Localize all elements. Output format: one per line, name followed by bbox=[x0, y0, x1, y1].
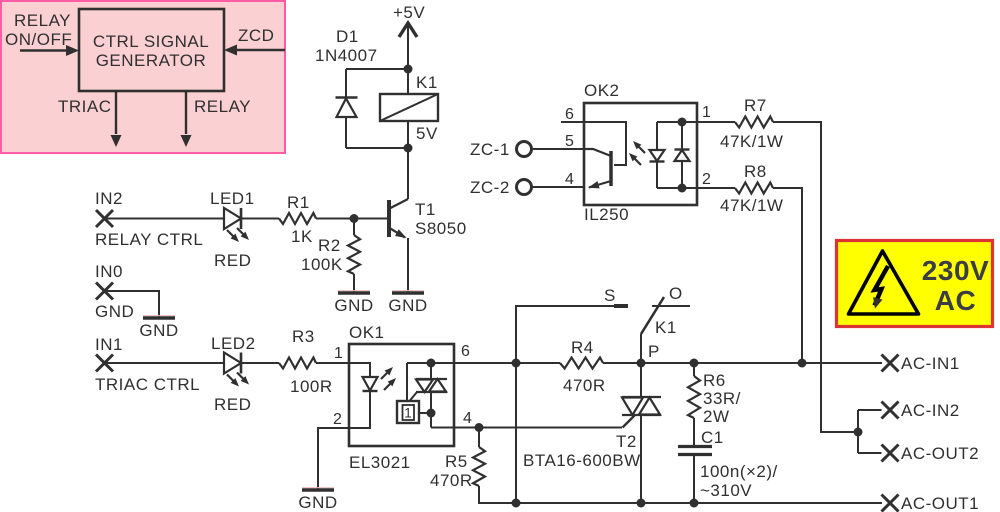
LED LED1 colour label bbox=[214, 251, 251, 270]
switch O label bbox=[669, 284, 683, 303]
svg-text:47K/1W: 47K/1W bbox=[720, 196, 783, 215]
svg-text:TRIAC CTRL: TRIAC CTRL bbox=[95, 375, 200, 394]
warning lightning bolt bbox=[873, 266, 888, 309]
node AC-IN1 terminal bbox=[882, 355, 899, 372]
node OK1 triac top bbox=[427, 359, 436, 368]
svg-text:OK1: OK1 bbox=[349, 323, 385, 342]
triac T2 label bbox=[616, 432, 637, 451]
ZCD input arrow bbox=[224, 45, 285, 56]
wire IN2 to LED1 bbox=[104, 218, 224, 220]
wire R7 to AC-IN2 branch bbox=[773, 122, 858, 432]
relay K1 label bbox=[416, 73, 438, 92]
resistor R4 label bbox=[563, 338, 606, 395]
resistor R4 bbox=[560, 358, 603, 369]
node AC-OUT2 terminal bbox=[858, 445, 899, 462]
warning sign background bbox=[837, 241, 993, 327]
node AC-OUT1 terminal bbox=[882, 495, 899, 512]
+5V supply label bbox=[393, 3, 425, 22]
diode D1 bbox=[336, 69, 358, 148]
OK1 internal emission arrows bbox=[381, 367, 396, 390]
ground OK1 pin2 bbox=[298, 488, 337, 512]
optocoupler OK2 pin 6 stub bbox=[561, 121, 584, 123]
RELAY ON/OFF input label bbox=[5, 11, 72, 49]
svg-text:6: 6 bbox=[461, 343, 470, 360]
svg-text:ZC-1: ZC-1 bbox=[470, 140, 510, 159]
wire D1 top bbox=[346, 68, 408, 70]
optocoupler OK2 pin 1 label bbox=[702, 104, 711, 121]
CTRL SIGNAL GENERATOR box bbox=[79, 9, 224, 91]
node R8 junction bbox=[798, 359, 807, 368]
svg-text:GND: GND bbox=[334, 296, 373, 315]
resistor R7 bbox=[735, 117, 773, 128]
ground R2 bbox=[334, 291, 373, 315]
OK1 internal LED bbox=[350, 363, 378, 428]
resistor R3 label bbox=[290, 327, 333, 396]
optocoupler OK1 pin 1 label bbox=[334, 345, 343, 362]
wire OK2 pin2 to R8 bbox=[697, 187, 735, 189]
svg-text:1: 1 bbox=[702, 104, 711, 121]
LED LED2 emission arrows bbox=[227, 373, 249, 387]
svg-text:AC-IN2: AC-IN2 bbox=[901, 401, 960, 420]
block diagram panel background bbox=[1, 1, 285, 153]
wire IN1 to LED2 bbox=[104, 362, 224, 364]
svg-text:100K: 100K bbox=[301, 255, 343, 274]
svg-text:5V: 5V bbox=[416, 124, 438, 143]
node IN1 terminal bbox=[96, 355, 113, 372]
svg-text:100n(×2)/: 100n(×2)/ bbox=[700, 462, 778, 481]
wire IN0 to ground bbox=[105, 291, 160, 318]
TRIAC output arrow bbox=[111, 91, 122, 147]
node ZC-2 label bbox=[470, 178, 510, 197]
svg-text:RELAY CTRL: RELAY CTRL bbox=[95, 230, 203, 249]
svg-text:IN0: IN0 bbox=[95, 262, 123, 281]
svg-text:AC-OUT2: AC-OUT2 bbox=[901, 444, 979, 463]
wire OK2 pin1 to R7 bbox=[697, 121, 735, 123]
node AC-OUT2 label bbox=[901, 444, 979, 463]
optocoupler OK2 part number bbox=[584, 205, 629, 224]
svg-text:C1: C1 bbox=[701, 428, 724, 447]
svg-text:LED2: LED2 bbox=[211, 334, 256, 353]
node R5 top junction bbox=[475, 423, 484, 432]
optocoupler OK1 pin 6 label bbox=[461, 343, 470, 360]
svg-text:AC: AC bbox=[935, 285, 976, 316]
resistor R6 label bbox=[703, 371, 741, 426]
LED LED2 bbox=[224, 353, 241, 374]
svg-text:R1: R1 bbox=[287, 193, 310, 212]
switch O contact bbox=[652, 305, 690, 307]
resistor R2 label bbox=[301, 236, 343, 274]
node IN2 terminal bbox=[96, 210, 113, 227]
transistor T1 bbox=[389, 199, 408, 293]
wire bottom rail bbox=[516, 502, 882, 504]
wire S branch bbox=[516, 306, 614, 363]
svg-text:1K: 1K bbox=[291, 227, 313, 246]
svg-text:R5: R5 bbox=[445, 452, 468, 471]
svg-text:CTRL SIGNAL: CTRL SIGNAL bbox=[93, 32, 209, 51]
switch S contact bbox=[614, 304, 628, 308]
OK2 internal phototransistor bbox=[584, 149, 611, 188]
RELAY ON/OFF input arrow bbox=[20, 45, 79, 56]
node P junction bbox=[637, 359, 646, 368]
svg-text:GND: GND bbox=[298, 493, 337, 512]
svg-text:T2: T2 bbox=[616, 432, 637, 451]
diode D1 label bbox=[315, 27, 378, 65]
resistor R1 bbox=[279, 213, 316, 224]
optocoupler OK1 pin 4 label bbox=[463, 410, 472, 427]
node IN0 terminal bbox=[96, 283, 113, 300]
svg-text:100R: 100R bbox=[290, 377, 333, 396]
svg-text:1N4007: 1N4007 bbox=[315, 46, 378, 65]
node bottom C1 junction bbox=[690, 499, 699, 508]
warning 230V label bbox=[922, 255, 989, 286]
svg-text:470R: 470R bbox=[563, 376, 606, 395]
svg-text:EL3021: EL3021 bbox=[349, 453, 411, 472]
wire AC bracket bbox=[857, 410, 859, 453]
warning triangle bbox=[849, 251, 919, 314]
svg-text:R7: R7 bbox=[744, 96, 767, 115]
svg-text:2: 2 bbox=[333, 411, 342, 428]
wire R1 to base node bbox=[316, 218, 389, 220]
node IN0 sub-label bbox=[95, 302, 134, 321]
svg-text:S: S bbox=[604, 286, 616, 305]
svg-text:GND: GND bbox=[95, 302, 134, 321]
switch K1 blade bbox=[641, 297, 664, 363]
LED LED1 bbox=[224, 208, 241, 229]
svg-text:ZCD: ZCD bbox=[238, 26, 274, 45]
node ZC-1 terminal bbox=[517, 142, 585, 157]
node OK2 pin2 junction bbox=[678, 184, 687, 193]
resistor R7 label bbox=[720, 96, 783, 151]
node +5V junction bbox=[404, 65, 413, 74]
triac T2 bbox=[622, 363, 661, 503]
svg-text:R6: R6 bbox=[703, 371, 726, 390]
wire OK1 pin6 bbox=[407, 362, 516, 364]
resistor R2 bbox=[348, 219, 360, 294]
svg-text:4: 4 bbox=[565, 171, 574, 188]
svg-text:RELAY: RELAY bbox=[14, 11, 71, 30]
svg-text:P: P bbox=[648, 342, 660, 361]
optocoupler OK2 pin 4 label bbox=[565, 171, 574, 188]
optocoupler OK2 body bbox=[584, 103, 697, 205]
svg-text:GENERATOR: GENERATOR bbox=[96, 51, 207, 70]
wire LED1 to R1 bbox=[241, 218, 279, 220]
node ZC-2 terminal bbox=[517, 180, 585, 195]
svg-text:RED: RED bbox=[214, 395, 251, 414]
optocoupler OK1 body bbox=[349, 344, 454, 446]
LED LED2 label bbox=[211, 334, 256, 353]
svg-text:5: 5 bbox=[565, 133, 574, 150]
optocoupler OK2 pin 5 label bbox=[565, 133, 574, 150]
svg-text:R2: R2 bbox=[318, 236, 341, 255]
optocoupler OK1 label bbox=[349, 323, 385, 342]
node IN0 label bbox=[95, 262, 123, 281]
svg-text:ON/OFF: ON/OFF bbox=[5, 30, 72, 49]
node AC bracket junction bbox=[854, 428, 863, 437]
OK2 internal receiving arrows bbox=[629, 141, 645, 165]
svg-text:GND: GND bbox=[388, 296, 427, 315]
switch S label bbox=[604, 286, 616, 305]
resistor R5 label bbox=[430, 452, 473, 490]
resistor R8 label bbox=[720, 162, 783, 215]
svg-text:IN2: IN2 bbox=[95, 189, 123, 208]
warning AC label bbox=[935, 285, 976, 316]
capacitor C1 bbox=[678, 447, 712, 504]
wire D1 bottom bbox=[346, 147, 408, 149]
wire collector bbox=[407, 148, 409, 199]
resistor R1 label bbox=[287, 193, 313, 246]
svg-text:O: O bbox=[669, 284, 683, 303]
node AC-OUT1 label bbox=[901, 494, 979, 512]
optocoupler OK2 pin 6 label bbox=[565, 106, 574, 123]
svg-text:IN1: IN1 bbox=[95, 335, 123, 354]
svg-text:2: 2 bbox=[702, 171, 711, 188]
svg-text:33R/: 33R/ bbox=[703, 389, 741, 408]
optocoupler OK2 pin 2 label bbox=[702, 171, 711, 188]
LED LED1 emission arrows bbox=[227, 228, 249, 242]
svg-text:6: 6 bbox=[565, 106, 574, 123]
node AC-IN1 label bbox=[901, 354, 960, 373]
ground IN0 bbox=[139, 316, 178, 340]
resistor R8 bbox=[735, 183, 773, 194]
OK2 internal phototransistor base path bbox=[584, 122, 626, 165]
svg-text:S8050: S8050 bbox=[415, 219, 467, 238]
svg-text:OK2: OK2 bbox=[584, 81, 620, 100]
RELAY output arrow bbox=[181, 91, 192, 147]
svg-text:1: 1 bbox=[334, 345, 343, 362]
switch P pole label bbox=[648, 342, 660, 361]
triac T2 gate bbox=[623, 416, 635, 428]
svg-text:IL250: IL250 bbox=[584, 205, 629, 224]
node IN2 sub-label bbox=[95, 230, 203, 249]
optocoupler OK2 label bbox=[584, 81, 620, 100]
node AC-IN2 label bbox=[901, 401, 960, 420]
relay K1 coil bbox=[380, 69, 438, 143]
svg-text:R8: R8 bbox=[744, 162, 767, 181]
wire R3 to OK1 bbox=[316, 362, 350, 364]
OK1 internal phototriac bbox=[407, 363, 447, 428]
svg-text:RELAY: RELAY bbox=[194, 97, 251, 116]
svg-text:D1: D1 bbox=[336, 27, 359, 46]
svg-text:AC-OUT1: AC-OUT1 bbox=[901, 494, 979, 512]
capacitor C1 label bbox=[701, 428, 724, 447]
LED LED1 label bbox=[210, 189, 255, 208]
switch K1 label bbox=[655, 318, 677, 337]
OK2 internal LED pair bbox=[650, 122, 698, 188]
node ZC-1 label bbox=[470, 140, 510, 159]
svg-text:TRIAC: TRIAC bbox=[58, 97, 112, 116]
node IN1 sub-label bbox=[95, 375, 200, 394]
optocoupler OK1 part number bbox=[349, 453, 411, 472]
svg-text:47K/1W: 47K/1W bbox=[720, 132, 783, 151]
capacitor C1 value bbox=[700, 462, 778, 500]
node IN2 label bbox=[95, 189, 123, 208]
OK1 zero-cross block bbox=[397, 401, 431, 423]
node OK2 pin1 junction bbox=[678, 118, 687, 127]
node pin6 junction bbox=[512, 359, 521, 368]
resistor R6 bbox=[688, 363, 700, 446]
svg-text:~310V: ~310V bbox=[700, 481, 752, 500]
svg-text:GND: GND bbox=[139, 321, 178, 340]
wire P to AC-IN1 bbox=[641, 362, 882, 364]
triac T2 part number bbox=[523, 451, 641, 470]
node IN1 label bbox=[95, 335, 123, 354]
transistor T1 label bbox=[415, 200, 467, 238]
wire R8 to AC-IN1 bbox=[773, 188, 802, 363]
RELAY output label bbox=[194, 97, 251, 116]
svg-text:2W: 2W bbox=[703, 407, 730, 426]
ground T1 emitter bbox=[388, 291, 427, 315]
node R6 top junction bbox=[690, 359, 699, 368]
svg-text:ZC-2: ZC-2 bbox=[470, 178, 510, 197]
resistor R5 bbox=[473, 428, 516, 504]
svg-text:1: 1 bbox=[404, 406, 412, 421]
node relay-bottom junction bbox=[404, 121, 413, 153]
resistor R3 bbox=[279, 358, 316, 369]
+5V supply arrow bbox=[399, 23, 417, 69]
node AC-IN2 terminal bbox=[858, 402, 899, 419]
wire OK1 pin2 to ground bbox=[318, 428, 350, 490]
wire LED2 to R3 bbox=[241, 362, 279, 364]
LED LED2 colour label bbox=[214, 395, 251, 414]
wire OK1 pin4 out bbox=[431, 427, 622, 429]
svg-text:K1: K1 bbox=[655, 318, 677, 337]
svg-text:AC-IN1: AC-IN1 bbox=[901, 354, 960, 373]
svg-text:RED: RED bbox=[214, 251, 251, 270]
node OK1 triac bottom bbox=[427, 409, 436, 418]
node bottom T2 junction bbox=[637, 499, 646, 508]
svg-text:+5V: +5V bbox=[393, 3, 425, 22]
svg-text:R3: R3 bbox=[292, 327, 315, 346]
node bottom S-branch junction bbox=[512, 363, 521, 508]
ZCD input label bbox=[238, 26, 274, 45]
svg-text:LED1: LED1 bbox=[210, 189, 255, 208]
node base junction bbox=[350, 214, 359, 223]
svg-text:BTA16-600BW: BTA16-600BW bbox=[523, 451, 641, 470]
svg-text:K1: K1 bbox=[416, 73, 438, 92]
optocoupler OK1 pin 2 label bbox=[333, 411, 342, 428]
svg-text:R4: R4 bbox=[571, 338, 594, 357]
svg-text:4: 4 bbox=[463, 410, 472, 427]
svg-text:230V: 230V bbox=[922, 255, 989, 286]
svg-text:470R: 470R bbox=[430, 471, 473, 490]
TRIAC output label bbox=[58, 97, 112, 116]
svg-text:T1: T1 bbox=[415, 200, 436, 219]
wire R4 leads bbox=[516, 362, 641, 364]
